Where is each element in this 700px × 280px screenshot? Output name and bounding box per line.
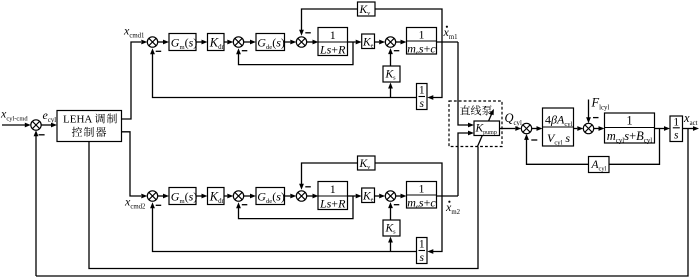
- svg-text:mes+c: mes+c: [407, 196, 436, 211]
- svg-text:xact: xact: [683, 111, 698, 127]
- svg-text:Gm(s): Gm(s): [171, 190, 197, 206]
- svg-text:xm1: xm1: [443, 25, 458, 41]
- svg-text:mes+c: mes+c: [407, 42, 436, 57]
- svg-text:s: s: [674, 130, 679, 142]
- svg-text:1: 1: [673, 117, 679, 129]
- svg-text:1: 1: [419, 182, 425, 196]
- svg-text:Ls+R: Ls+R: [319, 43, 346, 57]
- svg-text:1: 1: [330, 28, 336, 42]
- svg-text:Gm(s): Gm(s): [171, 36, 197, 52]
- svg-text:Qcyl: Qcyl: [505, 111, 522, 127]
- svg-text:LEHA: LEHA: [63, 114, 92, 126]
- svg-text:Flcyl: Flcyl: [591, 96, 610, 112]
- svg-text:Ls+R: Ls+R: [319, 197, 346, 211]
- svg-text:1: 1: [419, 239, 425, 251]
- svg-text:xm2: xm2: [445, 200, 461, 216]
- svg-text:1: 1: [626, 114, 632, 128]
- svg-text:s: s: [419, 98, 424, 110]
- svg-text:1: 1: [419, 28, 425, 42]
- svg-text:1: 1: [419, 85, 425, 97]
- svg-text:1: 1: [330, 182, 336, 196]
- svg-text:ecyl: ecyl: [43, 108, 57, 124]
- svg-text:xcyl-cmd: xcyl-cmd: [0, 107, 28, 123]
- svg-text:xcmd1: xcmd1: [123, 24, 144, 40]
- svg-text:s: s: [419, 252, 424, 264]
